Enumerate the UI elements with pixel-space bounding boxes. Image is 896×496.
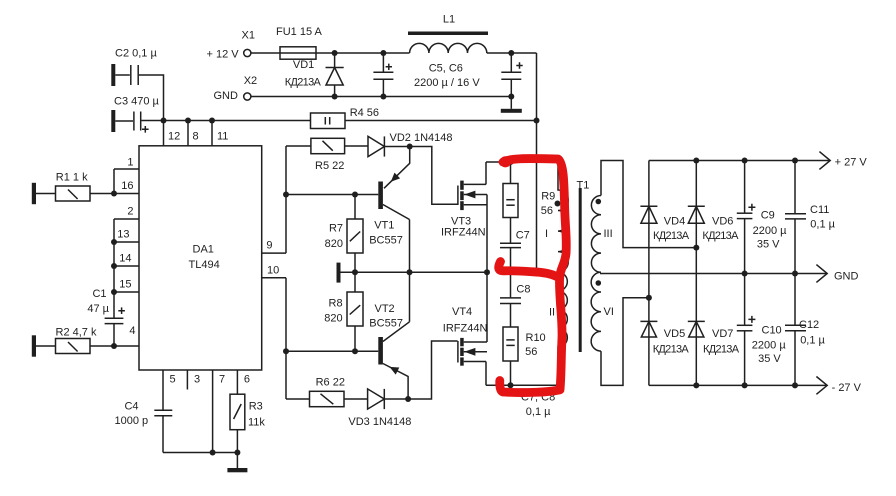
wire +27V rail xyxy=(649,158,829,164)
svg-text:VD2 1N4148: VD2 1N4148 xyxy=(390,132,453,144)
wire winding III top to VD6 xyxy=(601,161,699,251)
svg-text:0,1 µ: 0,1 µ xyxy=(800,335,825,347)
svg-text:820: 820 xyxy=(324,313,342,325)
svg-text:IRFZ44N: IRFZ44N xyxy=(441,227,486,239)
terminal X1 xyxy=(207,30,255,61)
capacitor C2 0,1µ xyxy=(111,48,163,121)
wire VT4 drain down xyxy=(485,362,487,386)
ground xyxy=(227,453,247,473)
diode VD7 КД213А xyxy=(688,248,740,386)
svg-text:TL494: TL494 xyxy=(189,259,220,271)
wire pins 2-13-14-15 tie xyxy=(111,219,117,318)
svg-text:15: 15 xyxy=(119,279,131,291)
wire +12V rail xyxy=(316,50,537,56)
fuse FU1 15 A xyxy=(276,26,323,59)
resistor R8 820 xyxy=(324,272,363,354)
pin 11 stub xyxy=(212,121,228,146)
svg-text:+ 12 V: + 12 V xyxy=(207,49,240,61)
diode VD4 КД213А xyxy=(640,161,689,298)
svg-text:14: 14 xyxy=(119,253,131,265)
resistor R4 56 xyxy=(311,107,380,129)
capacitor C1 47µ xyxy=(87,288,125,346)
diode VD1 КД213А xyxy=(285,53,344,97)
svg-text:BC557: BC557 xyxy=(369,317,403,329)
pin 15 stub xyxy=(114,279,139,293)
svg-text:GND: GND xyxy=(834,271,859,283)
svg-text:47 µ: 47 µ xyxy=(87,303,109,315)
pin 12 stub xyxy=(164,121,181,146)
svg-text:R10: R10 xyxy=(526,332,546,344)
svg-text:8: 8 xyxy=(193,131,199,143)
transistor Q2 VT2 BC557 xyxy=(286,303,410,399)
wire pin1 to pin16 xyxy=(111,169,117,197)
svg-text:56: 56 xyxy=(525,346,537,358)
svg-text:11: 11 xyxy=(217,131,228,143)
resistor R9 56 xyxy=(503,162,555,218)
red marker annotation around snubbers xyxy=(499,156,567,392)
pin 5 stub xyxy=(163,370,176,410)
svg-text:II: II xyxy=(549,307,555,319)
svg-text:FU1 15 A: FU1 15 A xyxy=(276,26,323,38)
svg-text:GND: GND xyxy=(214,90,239,102)
wire VT3 VT4 sources xyxy=(486,195,488,343)
capacitor C9 2200µ 35V xyxy=(737,161,787,274)
svg-text:10: 10 xyxy=(267,265,279,277)
svg-text:C9: C9 xyxy=(761,210,775,222)
svg-text:VD4: VD4 xyxy=(664,215,685,227)
resistor R3 11k xyxy=(230,394,265,452)
svg-text:VT4: VT4 xyxy=(452,306,472,318)
svg-text:L1: L1 xyxy=(443,14,455,26)
pin 3 stub xyxy=(187,370,200,390)
transistor Q4 VT4 IRFZ44N xyxy=(443,306,488,366)
svg-text:R8: R8 xyxy=(329,297,343,309)
pin 6 stub xyxy=(237,370,250,394)
pin 13 stub xyxy=(114,229,139,243)
svg-text:6: 6 xyxy=(244,374,250,386)
op-amp U1 DA1 TL494 body xyxy=(139,146,262,370)
svg-text:35 V: 35 V xyxy=(757,239,780,251)
transformer T1 secondary winding III and VI xyxy=(591,196,614,352)
label C5 C6 values xyxy=(414,63,480,90)
svg-text:16: 16 xyxy=(121,180,133,192)
pin 9 stub xyxy=(262,240,286,254)
svg-text:9: 9 xyxy=(266,240,272,252)
pin 2 stub xyxy=(114,206,139,220)
svg-text:R9: R9 xyxy=(541,191,555,203)
svg-text:1: 1 xyxy=(127,157,133,169)
svg-text:C10: C10 xyxy=(762,325,782,337)
capacitor C10 2200µ 35V xyxy=(737,274,787,386)
svg-text:C5, C6: C5, C6 xyxy=(429,63,463,75)
svg-text:2200 µ / 16 V: 2200 µ / 16 V xyxy=(414,77,480,89)
svg-text:C1: C1 xyxy=(92,288,106,300)
wire center tap line xyxy=(508,269,559,275)
diode VD2 1N4148 xyxy=(368,132,453,157)
svg-text:R5 22: R5 22 xyxy=(315,160,344,172)
svg-text:IRFZ44N: IRFZ44N xyxy=(443,323,488,335)
svg-text:X1: X1 xyxy=(242,30,255,42)
chassis ground under C6 xyxy=(501,97,522,113)
svg-text:C7: C7 xyxy=(516,230,530,242)
capacitor C3 470µ xyxy=(111,96,159,133)
resistor R5 22 xyxy=(286,138,368,172)
svg-text:5: 5 xyxy=(170,374,176,386)
resistor R2 4,7k xyxy=(32,327,114,357)
svg-text:III: III xyxy=(604,228,613,240)
svg-text:КД213А: КД213А xyxy=(703,344,740,356)
svg-text:+ 27 V: + 27 V xyxy=(835,157,868,169)
svg-text:2: 2 xyxy=(127,206,133,218)
svg-text:R6 22: R6 22 xyxy=(316,377,345,389)
wire -27V rail xyxy=(649,382,826,388)
svg-text:R4 56: R4 56 xyxy=(350,107,379,119)
svg-text:0,1 µ: 0,1 µ xyxy=(526,406,551,418)
svg-text:1000 p: 1000 p xyxy=(115,415,149,427)
svg-text:R3: R3 xyxy=(249,401,263,413)
svg-text:C3 470 µ: C3 470 µ xyxy=(114,96,160,108)
diode VD5 КД213А xyxy=(640,298,689,386)
svg-text:4: 4 xyxy=(129,325,135,337)
svg-text:VT1: VT1 xyxy=(374,220,394,232)
pin 1 stub xyxy=(114,157,139,170)
resistor R6 22 xyxy=(286,377,368,407)
svg-text:VD1: VD1 xyxy=(293,59,314,71)
svg-text:X2: X2 xyxy=(244,75,257,87)
chassis ground mid xyxy=(337,263,341,283)
svg-text:VD6: VD6 xyxy=(712,215,733,227)
wire primary top rail xyxy=(486,159,558,165)
resistor R10 56 xyxy=(503,327,546,388)
svg-text:820: 820 xyxy=(325,238,343,250)
svg-text:C11: C11 xyxy=(810,204,829,216)
node GND output arrow xyxy=(816,265,858,283)
pin 7 stub xyxy=(213,370,226,453)
pin 8 stub xyxy=(188,121,199,146)
wire common line xyxy=(341,269,491,275)
node -27V output arrow xyxy=(816,377,861,395)
resistor R7 820 xyxy=(325,192,363,273)
terminal X2 GND xyxy=(214,75,258,102)
svg-text:2200 µ: 2200 µ xyxy=(753,225,788,237)
svg-text:R2 4,7 k: R2 4,7 k xyxy=(56,327,97,339)
wire VD2 node to VT3 gate xyxy=(410,147,458,205)
svg-text:7: 7 xyxy=(219,374,225,386)
inductor L1 xyxy=(408,14,488,54)
capacitor C6 xyxy=(501,53,522,97)
pin 14 stub xyxy=(114,253,139,267)
wire VD3 node to VT4 gate xyxy=(408,341,458,399)
svg-text:- 27 V: - 27 V xyxy=(832,382,862,394)
pin 10 stub xyxy=(262,265,286,278)
diode VD3 1N4148 xyxy=(348,389,411,428)
svg-text:КД213А: КД213А xyxy=(653,230,690,242)
svg-text:C2 0,1 µ: C2 0,1 µ xyxy=(115,48,157,60)
capacitor C5 xyxy=(373,53,393,97)
resistor R1 1k xyxy=(32,172,114,205)
wire GND rail xyxy=(251,94,514,100)
svg-text:I: I xyxy=(545,228,548,240)
wire Vcc rail to R4 xyxy=(142,118,311,124)
svg-text:C8: C8 xyxy=(516,283,530,295)
transformer T1 core xyxy=(577,180,590,353)
capacitor C8 xyxy=(500,272,530,327)
svg-text:VD3 1N4148: VD3 1N4148 xyxy=(348,416,411,428)
wire primary bottom rail xyxy=(486,384,558,386)
svg-text:R1 1 k: R1 1 k xyxy=(56,172,88,184)
wire VT3 drain up xyxy=(485,162,487,184)
node +27V output arrow xyxy=(819,152,867,170)
svg-text:VT2: VT2 xyxy=(375,303,395,315)
capacitor C12 0,1µ xyxy=(785,274,826,386)
svg-text:КД213А: КД213А xyxy=(285,77,322,89)
capacitor C7 xyxy=(500,218,530,273)
svg-text:2200 µ: 2200 µ xyxy=(752,340,787,352)
wire pin10 down to R6 xyxy=(283,278,289,399)
svg-text:T1: T1 xyxy=(577,180,590,192)
wire C4 to ground node xyxy=(163,450,240,456)
svg-text:DA1: DA1 xyxy=(193,244,214,256)
svg-text:R7: R7 xyxy=(329,222,343,234)
svg-text:VI: VI xyxy=(604,306,614,318)
capacitor C11 0,1µ xyxy=(785,161,836,274)
svg-text:VD7: VD7 xyxy=(712,328,733,340)
wire R4 to +12 feed xyxy=(345,120,537,122)
transformer T1 primary winding I and II xyxy=(545,162,568,385)
transistor Q3 VT3 IRFZ44N xyxy=(441,181,487,239)
svg-text:C12: C12 xyxy=(799,319,819,331)
pin 16 stub xyxy=(114,180,139,194)
svg-text:13: 13 xyxy=(117,229,129,241)
wire +12 feed down to center tap xyxy=(534,53,540,272)
label C7 C8 value xyxy=(521,392,555,419)
svg-text:11k: 11k xyxy=(248,417,265,429)
svg-text:КД213А: КД213А xyxy=(702,230,739,242)
svg-text:C4: C4 xyxy=(124,401,138,413)
svg-text:12: 12 xyxy=(168,131,180,143)
svg-text:VD5: VD5 xyxy=(664,328,685,340)
wire X1 to FU1 xyxy=(251,52,280,54)
wire winding VI bottom to VD4 VD5 node xyxy=(601,295,652,386)
wire VT1 VT2 collectors xyxy=(407,220,413,322)
svg-text:35 V: 35 V xyxy=(758,353,781,365)
pin 4 stub xyxy=(111,325,139,349)
svg-text:КД213А: КД213А xyxy=(653,344,690,356)
svg-text:3: 3 xyxy=(194,374,200,386)
svg-text:56: 56 xyxy=(541,205,553,217)
wire GND output rail xyxy=(600,271,826,277)
capacitor C4 1000p xyxy=(115,401,173,453)
diode VD6 КД213А xyxy=(688,161,739,248)
wire pin9 up to R5 xyxy=(283,146,289,253)
svg-text:BC557: BC557 xyxy=(369,235,403,247)
svg-text:0,1 µ: 0,1 µ xyxy=(810,219,835,231)
transistor Q1 VT1 BC557 xyxy=(286,147,410,247)
